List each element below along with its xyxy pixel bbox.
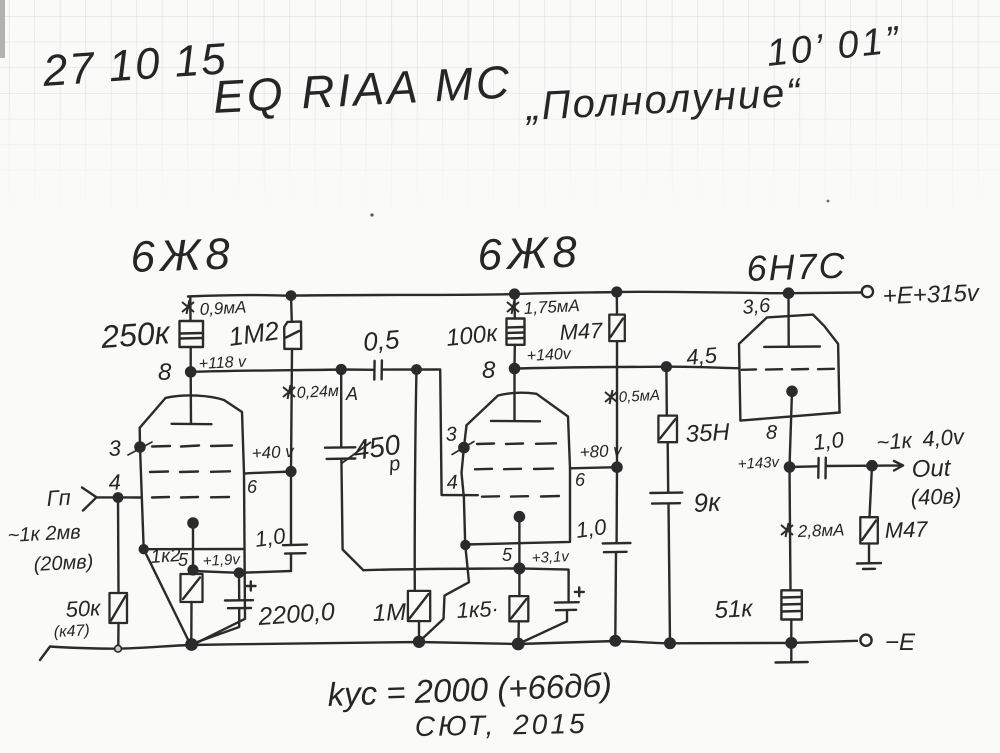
resistor R 1к2 [181, 574, 203, 643]
svg-text:6Н7С: 6Н7С [746, 245, 847, 289]
wire +1,9 cathode line [193, 571, 291, 573]
ink specks (decorative) [370, 213, 373, 216]
junction +40 screen node [287, 467, 296, 476]
wire +80 node to 1,0 cap [615, 467, 618, 543]
svg-text:2200,0: 2200,0 [256, 598, 335, 631]
svg-text:0,5мА: 0,5мА [618, 387, 660, 406]
svg-text:5: 5 [502, 545, 513, 565]
resistor R 50к [110, 593, 128, 645]
svg-text:(к47): (к47) [53, 622, 90, 641]
svg-text:0,24м: 0,24м [296, 383, 339, 402]
junction 50к to rail (open dot) [115, 645, 122, 652]
svg-text:100к: 100к [445, 320, 501, 352]
junction +143 node [785, 462, 794, 471]
tube V1 6Ж8 envelope [140, 395, 245, 644]
wire 250к from +E rail [189, 297, 192, 322]
tube V2 grid dashes row2 [475, 467, 553, 470]
svg-text:М47: М47 [559, 318, 604, 345]
junction stage1 cathode to rail [186, 639, 196, 649]
tube V2 anode bar and stem [491, 369, 540, 422]
svg-text:250к: 250к [99, 314, 173, 355]
resistor R 250к [180, 321, 204, 347]
svg-text:4,5: 4,5 [685, 342, 718, 370]
svg-text:М47: М47 [884, 516, 928, 543]
svg-text:(20мв): (20мв) [33, 551, 94, 576]
wire 100к to node 8 stage2 [513, 345, 516, 369]
junction 9к to rail [665, 639, 675, 649]
svg-text:9к: 9к [693, 487, 723, 518]
terminal +E [862, 286, 873, 297]
tube V2 cathode dot and stem [515, 512, 524, 521]
svg-text:6Ж8: 6Ж8 [477, 227, 583, 280]
svg-text:8: 8 [766, 422, 777, 444]
capacitor C 0,5 [374, 361, 382, 380]
tube V3 grid dashes [742, 369, 834, 370]
junction node A [337, 365, 346, 374]
resistor R М47 screen [609, 315, 625, 342]
tube V2 grid dashes row3 [482, 495, 559, 498]
svg-text:1,75мА: 1,75мА [523, 296, 580, 318]
wire 250к to node 8 [189, 347, 191, 372]
wire 1М2 from +E rail [290, 296, 293, 322]
terminal -E [860, 635, 871, 646]
junction 100к at +E rail [510, 290, 519, 299]
svg-text:(40в): (40в) [910, 483, 961, 510]
current mark star at 611,397 [605, 390, 617, 404]
tick at tube V2 pin3 [452, 442, 474, 455]
tube V1 cathode dot and stem [188, 518, 197, 527]
resistor R 1М [408, 591, 430, 642]
svg-text:6Ж8: 6Ж8 [130, 229, 236, 282]
wire +40 node to 1,0 cap [290, 472, 292, 545]
resistor R М47 output [860, 517, 878, 562]
wire +143 node to 1,0 output cap [790, 465, 819, 468]
svg-text:Out: Out [911, 455, 952, 483]
capacitor C 1,0 stage1 [283, 545, 307, 571]
wire -E bottom rail [40, 641, 857, 660]
svg-text:35Н: 35Н [685, 419, 731, 448]
svg-text:0,5: 0,5 [362, 324, 401, 357]
junction 4,5 node [662, 362, 671, 371]
tube V1 grid dashes row3 [152, 496, 229, 499]
junction tube V3 anode at +E rail [784, 289, 793, 298]
junction tube V2 pin5 (+3,1) [515, 564, 525, 574]
junction +80 screen node [612, 463, 621, 472]
tick at pin3 [128, 442, 152, 455]
wire node A to 0,5 cap [341, 368, 374, 371]
svg-text:3,6: 3,6 [742, 295, 772, 319]
junction 51к to rail [787, 638, 797, 648]
junction tube V2 suppressor tap [461, 541, 469, 549]
wire tube1 screen pin6 to +40 node [244, 472, 291, 474]
wire 450p to feedback line [341, 459, 363, 570]
wire 0,5 cap to stage2 grid corner [382, 370, 478, 496]
tube V3 cathode dot and stem [787, 387, 796, 396]
svg-text:6: 6 [575, 470, 586, 490]
resistor R 1М2 [284, 322, 301, 349]
svg-text:1,0: 1,0 [253, 523, 288, 552]
svg-text:А: А [345, 384, 358, 404]
capacitor C 450p [325, 447, 355, 459]
svg-text:3: 3 [108, 435, 122, 461]
svg-text:+1,9v: +1,9v [202, 551, 241, 570]
svg-text:2,8мА: 2,8мА [796, 520, 844, 541]
tube V2 6Ж8 envelope [421, 393, 570, 641]
svg-text:1,0: 1,0 [812, 427, 846, 455]
wire tube2 screen pin6 to +80 node [570, 467, 617, 468]
svg-text:+80 v: +80 v [579, 441, 623, 462]
svg-text:СЮТ, 2015: СЮТ, 2015 [415, 708, 588, 742]
junction 1,0 stage2 to rail [611, 636, 621, 646]
junction tube V1 pin5 [189, 566, 198, 575]
current mark star at 188,307 [182, 300, 194, 314]
wire 51к to rail [790, 620, 792, 643]
resistor R 1к5 [509, 596, 528, 643]
capacitor C 2200,0 electrolytic [193, 582, 256, 644]
capacitor C 1,0 output [818, 458, 826, 479]
current mark star at 513,307 [507, 300, 519, 314]
wire +140 line to 4,5 node and tube3 grid [515, 367, 740, 369]
capacitor C electrolytic stage2 [518, 588, 584, 645]
svg-text:3: 3 [445, 423, 457, 446]
wire output cap to out node and arrow [826, 461, 903, 471]
svg-text:+140v: +140v [526, 346, 572, 365]
svg-text:+143v: +143v [737, 454, 781, 473]
svg-text:−Е: −Е [885, 629, 916, 656]
capacitor C 1,0 stage2 screen [603, 543, 631, 640]
wire +3,1 line to electrolytic corner [519, 568, 568, 602]
wire input lead Гп [82, 488, 141, 511]
tube V1 anode bar and stem [172, 372, 212, 424]
current mark star at 289,392 [283, 385, 295, 399]
wire 1М2 down to +40 screen node (crosses +118 line) [291, 349, 292, 472]
capacitor C 9к [650, 493, 682, 644]
junction 1М grid leak tap [412, 365, 420, 373]
wire +E top rail [188, 292, 861, 297]
svg-text:8: 8 [158, 359, 172, 386]
wire 1М down from grid line [415, 370, 417, 591]
resistor R 100к [507, 319, 525, 345]
junction stage1 anode node 8 [186, 367, 195, 376]
wire 100к from +E rail [513, 294, 516, 319]
svg-text:4: 4 [108, 469, 122, 495]
svg-text:4: 4 [446, 471, 458, 494]
junction tube V1 pin3 [135, 442, 144, 451]
junction 2200 tap [235, 569, 243, 577]
tube V2 grid dashes row1 [477, 442, 556, 445]
wire 450p from node A [340, 370, 342, 448]
wire feedback line to stage2 cathode [363, 568, 519, 570]
resistor R 35Н [658, 416, 677, 493]
svg-text:+3,1v: +3,1v [531, 548, 570, 567]
wire +143 node to 51к [790, 467, 791, 590]
svg-text:0,9мА: 0,9мА [199, 298, 247, 319]
junction М47 at +E rail [612, 288, 621, 297]
junction stage2 cathode to rail [513, 639, 523, 649]
svg-text:1,0: 1,0 [574, 514, 609, 543]
svg-text:6: 6 [247, 477, 258, 497]
svg-text:1к2: 1к2 [150, 545, 182, 568]
tube V3 anode bar and stem from +E rail [764, 293, 820, 347]
resistor R 51к [781, 590, 801, 619]
ground below rail at tube3 [776, 643, 808, 663]
wire +118 line node8 to node A [191, 370, 342, 372]
tube V1 grid dashes row1 [152, 446, 232, 447]
junction 1М to rail [414, 637, 424, 647]
svg-text:+40 v: +40 v [251, 442, 295, 463]
svg-text:~1к 2мв: ~1к 2мв [7, 521, 81, 547]
tube V1 grid dashes row2 [150, 470, 230, 473]
svg-text:1к5·: 1к5· [456, 596, 499, 623]
wire out node to М47 output resistor [870, 466, 873, 518]
wire М47 down to +80 node (crosses +140 line) [616, 341, 618, 467]
svg-text:1М: 1М [372, 599, 406, 627]
junction tube V1 suppressor tap [140, 545, 148, 553]
junction tube V2 pin3 [459, 443, 468, 452]
svg-text:8: 8 [482, 357, 496, 384]
wire 50к to input node [117, 498, 120, 594]
svg-text:+Е+315v: +Е+315v [882, 280, 981, 310]
junction stage2 anode node 8 [510, 364, 519, 373]
tube V3 6Н7С envelope [739, 315, 840, 421]
wire 2200 cap stub [238, 573, 241, 600]
junction 1М2 at +E rail [287, 291, 295, 299]
current mark star at 787,530 [781, 523, 793, 537]
svg-text:51к: 51к [714, 595, 755, 624]
wire М47 screen dropper from +E rail [616, 292, 619, 315]
wire 35Н from 4,5 node [665, 367, 668, 416]
junction out node [867, 461, 876, 470]
scan edge shadow top-left [0, 0, 5, 58]
svg-text:+118 v: +118 v [198, 353, 247, 373]
svg-text:50к: 50к [65, 595, 103, 622]
svg-text:Гп: Гп [46, 485, 71, 511]
strike on 450 [342, 442, 371, 463]
ground under М47 output [857, 563, 881, 569]
junction input node [114, 493, 122, 501]
